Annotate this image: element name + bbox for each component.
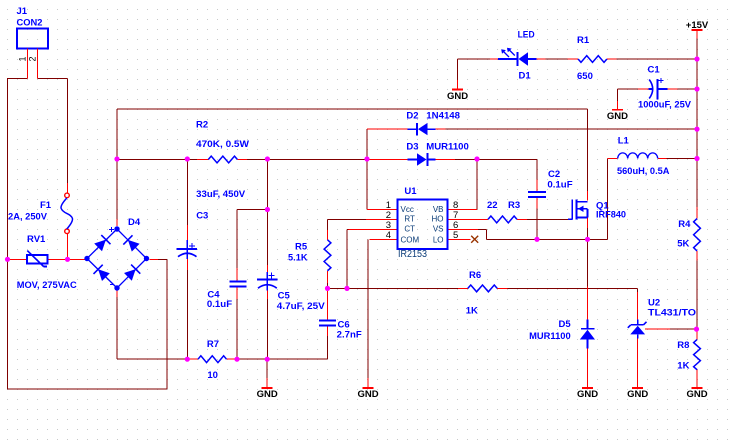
svg-text:MUR1100: MUR1100 bbox=[529, 331, 571, 342]
svg-text:2A, 250V: 2A, 250V bbox=[8, 211, 48, 222]
svg-text:IR2153: IR2153 bbox=[398, 249, 427, 260]
svg-text:GND: GND bbox=[447, 91, 468, 102]
svg-text:+15V: +15V bbox=[686, 20, 709, 31]
svg-text:R4: R4 bbox=[678, 219, 691, 230]
svg-text:J1: J1 bbox=[17, 6, 28, 17]
svg-text:1K: 1K bbox=[466, 306, 478, 317]
svg-text:F1: F1 bbox=[40, 200, 52, 211]
svg-text:TL431/TO: TL431/TO bbox=[648, 308, 696, 319]
svg-text:LO: LO bbox=[433, 236, 444, 245]
svg-text:R6: R6 bbox=[469, 270, 481, 281]
svg-text:D1: D1 bbox=[519, 70, 532, 81]
svg-text:GND: GND bbox=[577, 389, 598, 400]
svg-text:MUR1100: MUR1100 bbox=[426, 142, 469, 153]
svg-text:C5: C5 bbox=[278, 291, 291, 302]
svg-text:2.7nF: 2.7nF bbox=[337, 330, 362, 341]
svg-text:1N4148: 1N4148 bbox=[426, 110, 460, 121]
svg-text:470K, 0.5W: 470K, 0.5W bbox=[196, 139, 249, 150]
svg-text:R1: R1 bbox=[577, 35, 590, 46]
svg-text:IRF840: IRF840 bbox=[596, 210, 626, 221]
svg-text:CON2: CON2 bbox=[17, 18, 43, 29]
svg-text:C2: C2 bbox=[548, 169, 560, 180]
svg-text:5.1K: 5.1K bbox=[288, 253, 308, 264]
svg-text:D2: D2 bbox=[406, 110, 418, 121]
svg-text:D3: D3 bbox=[406, 142, 418, 153]
svg-text:10: 10 bbox=[207, 370, 218, 381]
svg-text:COM: COM bbox=[401, 236, 420, 245]
svg-text:CT: CT bbox=[404, 224, 415, 233]
svg-text:VS: VS bbox=[433, 224, 444, 233]
svg-text:560uH, 0.5A: 560uH, 0.5A bbox=[617, 166, 670, 177]
svg-text:R3: R3 bbox=[508, 200, 520, 211]
svg-text:0.1uF: 0.1uF bbox=[207, 299, 232, 310]
svg-text:GND: GND bbox=[257, 389, 278, 400]
svg-text:22: 22 bbox=[487, 200, 498, 211]
svg-text:0.1uF: 0.1uF bbox=[547, 180, 572, 191]
svg-text:GND: GND bbox=[607, 111, 628, 122]
svg-text:C3: C3 bbox=[196, 211, 208, 222]
svg-text:R2: R2 bbox=[196, 120, 208, 131]
svg-text:HO: HO bbox=[432, 214, 444, 223]
svg-text:U1: U1 bbox=[404, 186, 417, 197]
svg-text:650: 650 bbox=[577, 71, 593, 82]
svg-text:RT: RT bbox=[404, 214, 415, 223]
svg-text:GND: GND bbox=[627, 389, 648, 400]
svg-text:MOV, 275VAC: MOV, 275VAC bbox=[17, 280, 77, 291]
svg-text:D5: D5 bbox=[559, 319, 572, 330]
svg-text:5K: 5K bbox=[677, 239, 689, 250]
svg-text:R7: R7 bbox=[207, 339, 219, 350]
svg-text:R8: R8 bbox=[677, 340, 689, 351]
svg-text:LED: LED bbox=[518, 30, 535, 41]
svg-text:D4: D4 bbox=[128, 217, 141, 228]
svg-text:4.7uF, 25V: 4.7uF, 25V bbox=[277, 301, 326, 312]
svg-text:R5: R5 bbox=[295, 242, 308, 253]
svg-text:33uF, 450V: 33uF, 450V bbox=[196, 189, 246, 200]
svg-text:Vcc: Vcc bbox=[401, 205, 414, 214]
svg-text:GND: GND bbox=[357, 389, 378, 400]
svg-text:4: 4 bbox=[386, 230, 391, 241]
svg-text:5: 5 bbox=[453, 230, 458, 241]
svg-text:1000uF, 25V: 1000uF, 25V bbox=[638, 100, 692, 111]
svg-text:1: 1 bbox=[18, 56, 28, 61]
svg-text:GND: GND bbox=[686, 389, 707, 400]
svg-text:2: 2 bbox=[28, 56, 38, 61]
svg-text:L1: L1 bbox=[618, 136, 630, 147]
svg-text:VB: VB bbox=[433, 205, 444, 214]
svg-text:RV1: RV1 bbox=[27, 234, 46, 245]
svg-text:1K: 1K bbox=[677, 361, 689, 372]
svg-text:C1: C1 bbox=[648, 65, 661, 76]
